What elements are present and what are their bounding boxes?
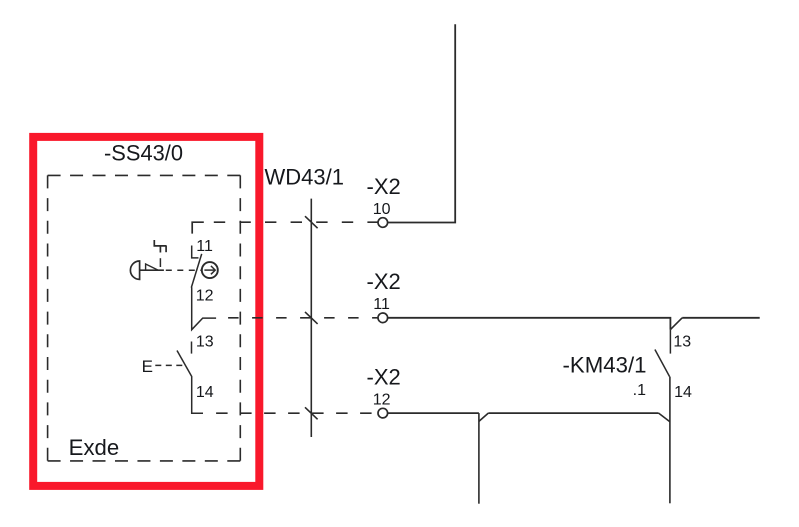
wire KM branch to right: [682, 317, 760, 319]
svg-text:-X2: -X2: [367, 174, 401, 199]
label -KM43/1: [563, 353, 647, 378]
label 14 (SS): [196, 384, 214, 401]
label 13 (SS): [196, 333, 214, 350]
cable marker slash 2: [305, 312, 318, 324]
label -SS43/0: [104, 141, 183, 166]
junction branch diagonal: [479, 413, 488, 421]
wire below contact 14 with corner: [192, 377, 203, 413]
wire terminal 11 to KM contact 13: [388, 318, 671, 330]
wire below contact 12 with branch diagonal: [192, 287, 216, 330]
svg-text:-X2: -X2: [367, 364, 401, 389]
svg-text:14: 14: [674, 384, 692, 401]
actuator dashed link horizontal to contact and lamp: [166, 269, 202, 271]
NO contact 13-14 moving arm: [177, 351, 192, 378]
svg-text:-X2: -X2: [367, 269, 401, 294]
svg-text:14: 14: [196, 384, 214, 401]
svg-text:E: E: [142, 357, 153, 376]
actuator triangle: [146, 264, 159, 270]
dashed wire to terminal 12: [216, 412, 377, 414]
branch diagonal at KM contact 13: [670, 318, 682, 330]
NC contact 11-12 top stub and seat: [192, 246, 199, 258]
label WD43/1: [265, 164, 344, 189]
label 11 (terminal): [373, 296, 390, 313]
svg-text:Exde: Exde: [69, 435, 120, 460]
KM contact bottom wire: [669, 377, 671, 504]
label 13 (KM): [673, 333, 691, 350]
label 10: [373, 201, 391, 218]
label Exde: [69, 435, 120, 460]
wire terminal 12 to junction: [388, 412, 479, 414]
label -X2 (row 11): [367, 269, 401, 294]
svg-text:11: 11: [373, 296, 390, 313]
label 11: [196, 238, 213, 255]
label .1: [633, 382, 646, 399]
cable marker slash 3: [305, 407, 318, 419]
terminal X2:10: [378, 218, 388, 228]
svg-text:11: 11: [196, 238, 213, 255]
NC contact 11-12 moving arm: [191, 254, 201, 288]
twist-release F mark: [154, 240, 166, 253]
E actuator dashed link: [155, 364, 183, 366]
svg-text:WD43/1: WD43/1: [265, 164, 344, 189]
terminal X2:11: [378, 313, 388, 323]
cable marker slash 1: [305, 216, 318, 228]
wire terminal 10 up to top edge: [388, 24, 456, 222]
dashed wire to terminal 11: [228, 317, 377, 319]
KM contact moving arm: [655, 350, 670, 377]
lamp circle with arrow: [202, 262, 218, 278]
svg-text:12: 12: [373, 391, 391, 408]
svg-text:13: 13: [196, 333, 214, 350]
dashed wire contact 11 to terminal 10 (corner): [192, 222, 377, 233]
svg-text:10: 10: [373, 201, 391, 218]
svg-text:.1: .1: [633, 382, 646, 399]
red highlight box: [33, 137, 259, 486]
KM contact top stub: [669, 330, 671, 354]
svg-text:-KM43/1: -KM43/1: [563, 353, 647, 378]
svg-text:12: 12: [196, 287, 214, 304]
label E: [142, 357, 153, 376]
actuator dashed link vertical: [159, 258, 161, 267]
wire junction to KM contact 14: [488, 412, 658, 414]
cable WD43/1 line: [310, 199, 312, 437]
label -X2 (row 10): [367, 174, 401, 199]
label 14 (KM): [674, 384, 692, 401]
svg-text:13: 13: [673, 333, 691, 350]
label 12: [196, 287, 214, 304]
junction drop wire: [478, 413, 480, 504]
pushbutton mushroom head actuator: [130, 261, 163, 279]
enclosure -SS43/0 dashed box: [48, 175, 241, 461]
svg-text:-SS43/0: -SS43/0: [104, 141, 183, 166]
junction diagonal into KM wire: [659, 413, 670, 422]
label -X2 (row 12): [367, 364, 401, 389]
NO contact 13-14 top stub: [191, 342, 193, 354]
label 12 (terminal): [373, 391, 391, 408]
terminal X2:12: [378, 408, 388, 418]
